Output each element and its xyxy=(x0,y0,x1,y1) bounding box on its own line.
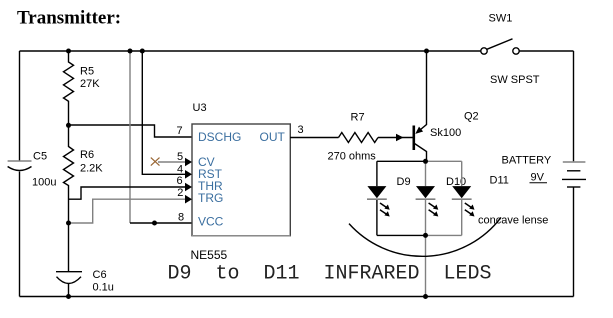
svg-text:5: 5 xyxy=(177,151,183,163)
svg-text:27K: 27K xyxy=(80,78,100,90)
node dot LED bottom rail xyxy=(423,233,428,238)
capacitor C5 xyxy=(8,160,32,162)
svg-text:D9 to D11 INFRARED LEDS: D9 to D11 INFRARED LEDS xyxy=(168,263,492,286)
node dot top rail R5 xyxy=(66,49,71,54)
node dot top rail Q2 emitter xyxy=(424,49,429,54)
node dot TRG at R6/C6 xyxy=(66,221,71,226)
no-connect X on CV xyxy=(151,158,160,166)
svg-text:9V: 9V xyxy=(531,172,545,184)
svg-text:6: 6 xyxy=(177,175,183,187)
wire VCC to pin8 xyxy=(130,222,192,224)
svg-text:BATTERY: BATTERY xyxy=(502,155,552,167)
node dot bottom rail xyxy=(423,294,428,299)
wire left rail upper (to C5) xyxy=(19,51,21,161)
svg-text:C5: C5 xyxy=(33,151,47,163)
svg-text:OUT: OUT xyxy=(260,130,286,144)
resistor R5 xyxy=(64,51,74,125)
svg-text:DSCHG: DSCHG xyxy=(198,130,241,144)
svg-text:VCC: VCC xyxy=(198,215,224,229)
resistor R6 xyxy=(64,125,74,271)
wire LED top rail black part xyxy=(377,160,426,162)
transistor Q2 xyxy=(412,126,415,151)
node dot top rail VCC net xyxy=(128,49,133,54)
op-amp/timer U3 NE555 box xyxy=(192,124,290,236)
svg-text:Transmitter:: Transmitter: xyxy=(17,8,121,29)
svg-text:100u: 100u xyxy=(32,177,56,189)
node dot LED top rail xyxy=(423,159,428,164)
resistor R7 xyxy=(339,133,379,143)
LED D9 xyxy=(376,161,378,235)
wire pin7 from R5/R6 junction xyxy=(69,125,193,137)
wire LED bottom rail black part xyxy=(377,234,426,236)
battery xyxy=(563,161,586,163)
LED D10 xyxy=(425,161,427,235)
wire OUT pin3 to R7 xyxy=(290,137,339,139)
LED D11 xyxy=(461,161,463,235)
svg-text:U3: U3 xyxy=(193,102,207,114)
node dot on VCC pin8 wire xyxy=(152,221,157,226)
svg-text:Q2: Q2 xyxy=(464,111,479,123)
pin arrow RST xyxy=(185,170,192,179)
svg-text:R5: R5 xyxy=(80,66,94,78)
svg-text:2: 2 xyxy=(177,187,183,199)
svg-text:7: 7 xyxy=(177,125,183,137)
svg-text:SW SPST: SW SPST xyxy=(490,74,540,86)
svg-text:R7: R7 xyxy=(351,112,365,124)
svg-text:4: 4 xyxy=(177,164,183,176)
svg-text:SW1: SW1 xyxy=(489,13,513,25)
arrow into base xyxy=(396,134,404,141)
wire top rail right of switch xyxy=(519,50,573,52)
wire left rail lower (C5 to bottom) xyxy=(19,172,21,297)
wire TRG net (gray) to pin2 xyxy=(69,199,186,223)
wire bottom rail xyxy=(20,296,574,298)
pin arrow CV xyxy=(185,158,192,167)
svg-text:8: 8 xyxy=(178,212,184,224)
pin arrow THR xyxy=(185,183,192,192)
wire LED bottom rail gray part xyxy=(426,234,462,236)
svg-text:3: 3 xyxy=(298,124,304,136)
svg-text:NE555: NE555 xyxy=(191,248,228,262)
wire LED top rail gray part xyxy=(426,160,462,162)
wire THR to pin6 xyxy=(69,187,187,199)
svg-text:TRG: TRG xyxy=(198,191,223,205)
wire right rail lower (battery to bottom) xyxy=(573,187,575,296)
node dot top rail RST net xyxy=(140,49,145,54)
wire VCC net vertical (gray) xyxy=(129,51,131,223)
wire CV stub pin5 xyxy=(158,161,186,163)
node dot C6 bottom xyxy=(66,294,71,299)
pin arrow TRG xyxy=(185,195,192,204)
svg-text:D9: D9 xyxy=(397,176,411,188)
wire right rail upper (to battery) xyxy=(573,51,575,161)
svg-text:C6: C6 xyxy=(93,269,107,281)
wire RST net from top rail to pin4 xyxy=(142,51,186,174)
svg-text:Sk100: Sk100 xyxy=(430,127,461,139)
svg-text:0.1u: 0.1u xyxy=(93,282,114,294)
wire middle branch to bottom rail (gray) xyxy=(425,235,427,296)
concave lens arc xyxy=(349,217,501,256)
svg-text:concave lense: concave lense xyxy=(478,215,548,227)
capacitor C6 xyxy=(56,271,82,273)
svg-text:270 ohms: 270 ohms xyxy=(328,151,377,163)
node dot R5/R6 junction xyxy=(66,123,71,128)
wire R7 to Q2 base xyxy=(378,137,413,139)
wire top rail left of switch xyxy=(20,50,482,52)
svg-text:R6: R6 xyxy=(80,149,94,161)
svg-text:2.2K: 2.2K xyxy=(80,163,103,175)
switch SW1 xyxy=(487,39,513,50)
svg-text:D11: D11 xyxy=(490,175,509,187)
